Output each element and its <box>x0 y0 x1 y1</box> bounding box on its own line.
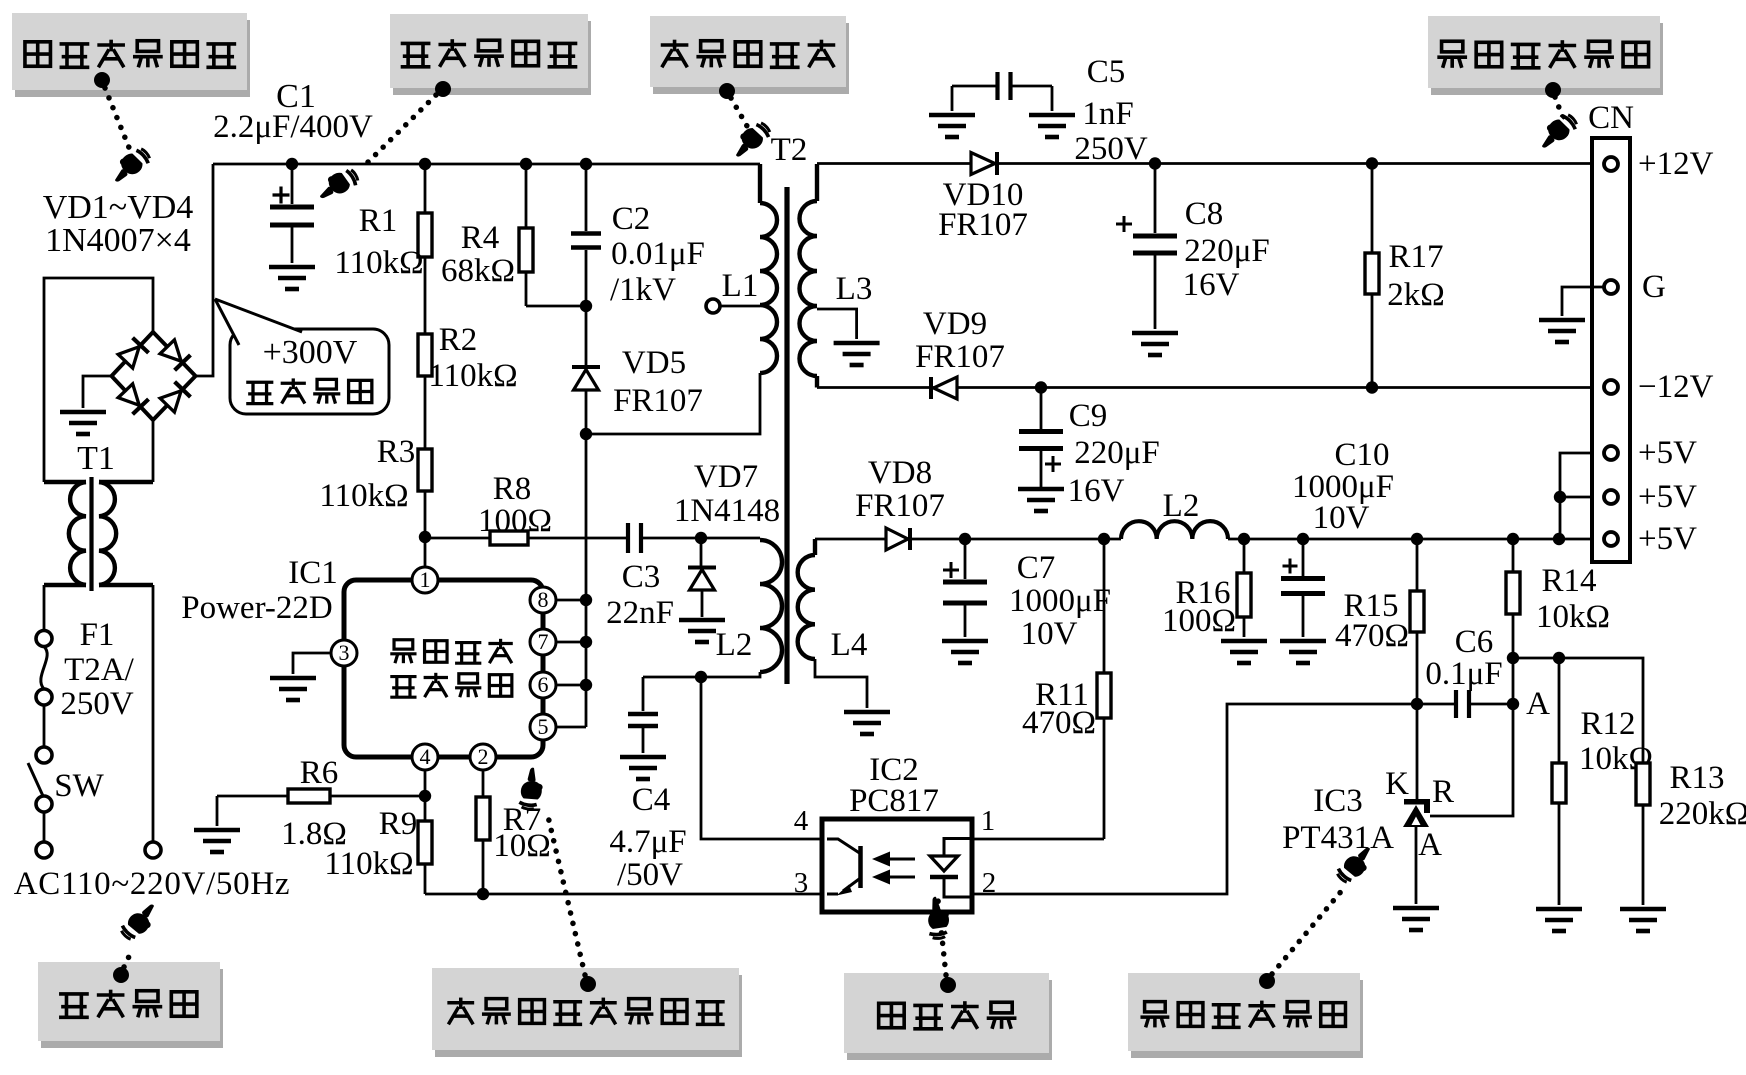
IC1 pin 4 <box>412 744 438 770</box>
wire: T1 right bottom to AC terminal <box>152 585 155 841</box>
svg-text:R: R <box>1432 774 1454 810</box>
resistor R6 1.8 <box>217 795 288 798</box>
svg-text:R6: R6 <box>300 755 339 791</box>
IC1 pin 6 <box>530 672 556 698</box>
node A <box>1507 698 1519 710</box>
svg-text:2kΩ: 2kΩ <box>1387 277 1445 313</box>
svg-text:AC110~220V/50Hz: AC110~220V/50Hz <box>14 866 290 902</box>
wire: G pin to ground <box>1562 287 1604 316</box>
label box: switching transformer (开关变压器) <box>653 23 849 94</box>
svg-text:10kΩ: 10kΩ <box>1536 599 1610 635</box>
node: R17 bottom <box>1366 381 1378 393</box>
node: R15/C6/IC3 <box>1411 698 1423 710</box>
svg-text:PC817: PC817 <box>849 783 939 819</box>
svg-text:16V: 16V <box>1183 267 1240 303</box>
wire: pin8 stub <box>556 599 586 602</box>
svg-text:R17: R17 <box>1388 239 1443 275</box>
svg-text:220μF: 220μF <box>1184 233 1270 269</box>
wire: +5V pins link <box>1560 453 1592 539</box>
wire: node A to IC3 R terminal <box>1430 704 1513 816</box>
node: C10 top <box>1297 533 1309 545</box>
svg-text:L1: L1 <box>722 268 759 304</box>
svg-text:6: 6 <box>538 672 549 697</box>
node: C8 top <box>1149 157 1161 169</box>
svg-text:5: 5 <box>538 714 549 739</box>
IC2 phototransistor <box>858 846 863 888</box>
svg-text:VD9: VD9 <box>923 306 987 342</box>
wire: -12V rail <box>817 386 1592 389</box>
node: pin7/vertical <box>580 636 592 648</box>
resistor R2 110k <box>418 334 432 376</box>
svg-text:PT431A: PT431A <box>1282 820 1394 856</box>
capacitor C2 0.01uF/1kV <box>585 164 588 231</box>
wire: +12V rail <box>817 162 1592 165</box>
diode VD5 FR107 <box>585 306 588 367</box>
label box: error detection circuit (误差检测电路) <box>1131 980 1363 1058</box>
node: pin8/vertical <box>580 594 592 606</box>
ground: C5 right <box>1029 115 1075 137</box>
pointer hand: DC voltage output <box>1534 110 1580 154</box>
label box: bridge rectifier circuit (桥式整流电路) <box>15 20 250 97</box>
capacitor C8 220uF/16V <box>1154 164 1157 234</box>
switch SW <box>36 747 52 763</box>
node: R11 top <box>1098 533 1110 545</box>
node: R1 top <box>419 158 431 170</box>
wire: R11 to IC2 pin1 <box>972 838 1104 841</box>
svg-text:−12V: −12V <box>1638 369 1714 405</box>
svg-text:110kΩ: 110kΩ <box>334 245 423 281</box>
wire: pin3 to ground <box>293 653 331 674</box>
L1 tap terminal <box>706 299 720 313</box>
diode VD8 FR107 <box>886 528 908 550</box>
diode VD7 1N4148 <box>700 538 703 567</box>
resistor R16 100 <box>1243 539 1246 573</box>
IC1 pin 5 <box>530 714 556 740</box>
svg-text:T2: T2 <box>771 132 808 168</box>
pointer hand: AC input <box>118 899 163 944</box>
ground: bridge negative <box>60 412 106 434</box>
svg-text:CN: CN <box>1588 100 1634 136</box>
T2 secondary winding L4 <box>813 539 817 555</box>
svg-text:R1: R1 <box>359 203 398 239</box>
svg-text:T1: T1 <box>77 440 115 477</box>
svg-text:1N4148: 1N4148 <box>674 493 780 529</box>
svg-text:1000μF: 1000μF <box>1009 583 1111 619</box>
svg-text:L4: L4 <box>831 627 868 663</box>
resistor R7 10 <box>476 797 490 840</box>
svg-text:68kΩ: 68kΩ <box>441 253 515 289</box>
pointer hand: switching transformer <box>728 118 774 162</box>
wire: pin4 down <box>424 770 427 796</box>
svg-text:4.7μF: 4.7μF <box>609 824 686 860</box>
wire: +5V rail left segment <box>815 538 886 541</box>
svg-text:R2: R2 <box>439 322 478 358</box>
svg-text:VD7: VD7 <box>694 459 758 495</box>
resistor R9 110k <box>424 796 427 821</box>
pointer hand: optocoupler <box>926 896 950 939</box>
svg-text:4: 4 <box>794 805 809 837</box>
node: VD7/L2 top <box>695 532 707 544</box>
CN pin +5V a <box>1604 446 1618 460</box>
bridge diode VD3 (left-bottom edge) <box>117 383 148 414</box>
svg-text:IC1: IC1 <box>288 555 338 591</box>
callout pointer leader: filter capacitor label <box>435 81 451 97</box>
IC3 PT431A shunt regulator <box>1416 704 1419 799</box>
svg-text:C2: C2 <box>612 201 651 237</box>
svg-text:1N4007×4: 1N4007×4 <box>45 222 191 259</box>
node: pin4/R6/R9 <box>419 790 431 802</box>
wire: C3 to VD7 node <box>641 537 701 540</box>
svg-text:A: A <box>1418 827 1442 863</box>
pointer hand: bridge rectifier <box>107 144 153 188</box>
capacitor C9 220uF/16V <box>1040 388 1043 430</box>
wire: bridge bottom vertex to T1 right winding <box>152 420 155 482</box>
wire: L2 inductor to CN +5V <box>1228 538 1592 541</box>
svg-text:L3: L3 <box>836 271 873 307</box>
T2 feedback winding L2 <box>760 540 782 672</box>
svg-text:R14: R14 <box>1541 563 1596 599</box>
wire: pin6 stub <box>556 684 586 687</box>
node: R16 top <box>1238 533 1250 545</box>
wire: bridge + output to rail <box>196 164 214 376</box>
node: R12 top <box>1553 652 1565 664</box>
T2 primary winding L1 <box>758 164 762 203</box>
svg-text:K: K <box>1385 766 1409 802</box>
svg-text:R13: R13 <box>1669 760 1724 796</box>
capacitor C1 2.2uF/400V <box>291 164 294 204</box>
ground: IC1 pin3 <box>270 678 316 700</box>
svg-text:FR107: FR107 <box>938 207 1028 243</box>
resistor R17 2k <box>1371 164 1374 254</box>
svg-text:+300V: +300V <box>263 334 358 371</box>
svg-text:A: A <box>1526 686 1550 722</box>
svg-text:G: G <box>1642 269 1666 305</box>
node: R15 top <box>1411 533 1423 545</box>
svg-text:Power-22D: Power-22D <box>181 590 332 626</box>
IC1 pin 2 <box>470 744 496 770</box>
wire: VD5 node down past R8 wire to IC1 pins <box>585 434 588 727</box>
node: +5V link <box>1553 533 1565 545</box>
wire: pin2 down <box>482 770 485 797</box>
label box: switching oscillator IC (开关振荡集成电路) <box>435 975 742 1057</box>
svg-text:FR107: FR107 <box>915 339 1005 375</box>
node: R14 top <box>1507 533 1519 545</box>
svg-text:7: 7 <box>538 629 549 654</box>
CN pin G <box>1604 280 1618 294</box>
wire: C4 node to IC2 pin4 <box>701 677 822 839</box>
node: pin6/vertical <box>580 679 592 691</box>
wire: pin5 stub <box>556 726 586 729</box>
wire: switch to AC terminal <box>43 812 46 841</box>
node: R4 top <box>520 158 532 170</box>
svg-text:C3: C3 <box>622 559 661 595</box>
svg-text:16V: 16V <box>1068 473 1125 509</box>
svg-text:2: 2 <box>478 744 489 769</box>
svg-text:10Ω: 10Ω <box>493 828 551 864</box>
wire: fuse to switch <box>43 705 46 747</box>
CN pin +12V <box>1604 157 1618 171</box>
svg-text:FR107: FR107 <box>855 488 945 524</box>
svg-text:VD8: VD8 <box>868 455 932 491</box>
resistor R4 68k <box>525 164 528 228</box>
svg-text:/50V: /50V <box>617 857 683 893</box>
ground: VD7 anode <box>679 620 725 642</box>
svg-text:+5V: +5V <box>1638 479 1697 515</box>
svg-text:220μF: 220μF <box>1074 435 1160 471</box>
wire: IC2 pin2 to error network <box>972 704 1417 894</box>
bridge rectifier VD1-VD4 diamond <box>112 332 196 420</box>
diode VD10 FR107 <box>971 153 995 175</box>
svg-text:+5V: +5V <box>1638 435 1697 471</box>
svg-text:C10: C10 <box>1334 437 1389 473</box>
svg-text:C8: C8 <box>1185 196 1224 232</box>
CN pin +5V c <box>1604 532 1618 546</box>
svg-text:/1kV: /1kV <box>610 272 676 308</box>
svg-text:470Ω: 470Ω <box>1335 618 1409 654</box>
capacitor C4 4.7uF/50V <box>642 677 645 711</box>
svg-text:1nF: 1nF <box>1082 96 1133 132</box>
node: C2 top <box>580 158 592 170</box>
resistor R14 10k <box>1512 539 1515 572</box>
resistor R12 10k <box>1558 658 1561 763</box>
node: R7 bottom <box>477 888 489 900</box>
ground: C5 left <box>929 115 975 137</box>
capacitor C6 0.1uF <box>1417 703 1454 706</box>
svg-text:10V: 10V <box>1021 616 1078 652</box>
svg-text:IC3: IC3 <box>1313 783 1363 819</box>
wire: pin7 stub <box>556 641 586 644</box>
svg-text:250V: 250V <box>1074 131 1148 167</box>
capacitor C5 1nF/250V snubber <box>952 85 996 88</box>
svg-text:1: 1 <box>420 567 431 592</box>
capacitor C3 22nF <box>626 523 630 553</box>
capacitor C7 1000uF/10V <box>964 539 967 579</box>
callout pointer leader: error detection label <box>1259 973 1275 989</box>
IC1 switching oscillator IC outline <box>344 580 543 757</box>
pointer hand: filter capacitor <box>314 165 361 205</box>
svg-text:0.01μF: 0.01μF <box>611 236 705 272</box>
svg-text:100Ω: 100Ω <box>478 503 552 539</box>
svg-text:C5: C5 <box>1087 54 1126 90</box>
CN pin -12V <box>1604 380 1618 394</box>
svg-text:C4: C4 <box>632 782 671 818</box>
svg-text:470Ω: 470Ω <box>1022 705 1096 741</box>
svg-text:C6: C6 <box>1455 624 1494 660</box>
IC2 LED <box>944 839 972 857</box>
resistor R13 220k <box>1636 763 1650 805</box>
svg-text:R12: R12 <box>1580 706 1635 742</box>
wire: R4 bottom to C2/VD5 node <box>526 305 586 308</box>
svg-text:4: 4 <box>420 744 431 769</box>
svg-text:R8: R8 <box>493 471 532 507</box>
callout: +300V DC voltage <box>230 329 389 414</box>
svg-text:VD5: VD5 <box>622 345 686 381</box>
IC1 pin 7 <box>530 629 556 655</box>
label box: optocoupler (光耦合器) <box>847 980 1052 1060</box>
resistor R8 100 <box>425 537 490 540</box>
IC1 pin 8 <box>530 587 556 613</box>
ground: L4 bottom <box>844 712 890 734</box>
node: C1 on top rail <box>286 158 298 170</box>
callout pointer leader: AC input label <box>113 967 129 983</box>
label box: AC input (交流输入) <box>41 969 223 1048</box>
svg-text:22nF: 22nF <box>606 595 674 631</box>
wire: T1 left bottom to fuse <box>43 585 46 630</box>
IC1 internal label (开关振荡/集成电路) <box>390 640 416 663</box>
IC1 pin 1 <box>412 567 438 593</box>
L3 tap to ground <box>817 309 857 339</box>
AC input terminal right <box>145 842 161 858</box>
svg-text:R4: R4 <box>461 220 500 256</box>
svg-text:110kΩ: 110kΩ <box>319 478 408 514</box>
svg-text:220kΩ: 220kΩ <box>1659 796 1746 832</box>
IC2 light arrows <box>884 858 915 861</box>
inductor L2 filter <box>1121 521 1228 539</box>
node: C2/VD5 <box>580 300 592 312</box>
resistor R1 110k <box>424 164 427 213</box>
svg-text:FR107: FR107 <box>613 383 703 419</box>
wire: IC1 pin1 to R3 node <box>424 537 427 568</box>
callout pointer leader: optocoupler label <box>940 977 956 993</box>
wire: L1 bottom to VD5 node <box>586 373 760 434</box>
svg-text:F1: F1 <box>80 617 115 653</box>
pointer hand: oscillator IC <box>517 766 546 811</box>
svg-text:R9: R9 <box>379 806 418 842</box>
resistor R3 110k <box>418 449 432 491</box>
pointer hand: error detection (IC3) <box>1334 842 1379 887</box>
svg-text:C7: C7 <box>1017 550 1056 586</box>
node: C9 top <box>1035 381 1047 393</box>
wire: bridge - (left vertex) to ground <box>83 376 112 408</box>
bridge diode VD2 (top-right edge) <box>159 339 190 370</box>
svg-text:T2A/: T2A/ <box>64 652 134 688</box>
callout pointer leader: switching transformer label <box>719 83 735 99</box>
node: +5V link mid <box>1554 491 1566 503</box>
svg-text:8: 8 <box>538 587 549 612</box>
bridge diode VD1 (left-top edge) <box>117 338 148 369</box>
node: VD5/L1 return <box>580 428 592 440</box>
T2 secondary winding L3 <box>815 164 819 201</box>
svg-text:VD1~VD4: VD1~VD4 <box>43 189 194 226</box>
svg-text:C9: C9 <box>1069 398 1108 434</box>
svg-text:110kΩ: 110kΩ <box>324 846 413 882</box>
label box: DC voltage output (直流电压输出) <box>1431 23 1663 95</box>
connector CN outline <box>1592 138 1630 562</box>
wire: bottom rail to IC2 pin3 <box>425 893 822 896</box>
wire+ground: R6 left <box>216 796 219 826</box>
node: R3/R8/IC1 pin1 <box>419 531 431 543</box>
transformer T2 core <box>784 187 789 684</box>
svg-text:+5V: +5V <box>1638 521 1697 557</box>
callout pointer leader: bridge label <box>94 72 110 88</box>
svg-text:SW: SW <box>54 768 104 804</box>
wire: VD8 to L2 inductor <box>912 538 1121 541</box>
svg-text:250V: 250V <box>60 686 134 722</box>
resistor R11 470 <box>1103 539 1106 673</box>
bridge diode VD4 (bottom-right edge) <box>159 382 190 413</box>
svg-text:L2: L2 <box>716 627 753 663</box>
svg-text:1: 1 <box>981 805 996 837</box>
svg-text:3: 3 <box>794 867 809 899</box>
resistor R15 470 <box>1416 539 1419 591</box>
svg-text:2: 2 <box>982 867 997 899</box>
wire: L2 top to VD7 node <box>701 537 760 540</box>
capacitor C10 1000uF/10V <box>1302 539 1305 576</box>
wire: branch to R12/R13 <box>1513 658 1643 763</box>
callout pointer leader: oscillator IC label <box>580 976 596 992</box>
svg-text:3: 3 <box>339 640 350 665</box>
fuse F1 T2A/250V <box>36 631 52 647</box>
node: R14/R12-R13 branch <box>1507 652 1519 664</box>
svg-text:+12V: +12V <box>1638 146 1714 182</box>
CN pin +5V b <box>1604 490 1618 504</box>
wire: top +300V rail <box>213 163 760 166</box>
diode VD9 FR107 <box>929 377 933 399</box>
IC1 pin 3 <box>331 640 357 666</box>
wire: R8 to C3 <box>528 537 628 540</box>
svg-text:R3: R3 <box>377 434 416 470</box>
node: L2 bottom / C4 / pin4 wire <box>695 671 707 683</box>
node: C7 top <box>959 533 971 545</box>
AC input terminal left <box>36 842 52 858</box>
callout pointer leader: DC output label <box>1545 82 1561 98</box>
node: R17 top <box>1366 157 1378 169</box>
wire: bridge top vertex to T1 left side <box>44 278 153 482</box>
svg-text:0.1μF: 0.1μF <box>1425 656 1502 692</box>
svg-text:10V: 10V <box>1313 500 1370 536</box>
svg-text:L2: L2 <box>1163 488 1200 524</box>
svg-text:2.2μF/400V: 2.2μF/400V <box>213 109 373 145</box>
label box: filter capacitor (滤波电容器) <box>393 21 591 95</box>
svg-text:100Ω: 100Ω <box>1162 603 1236 639</box>
ground: C1 <box>269 267 315 289</box>
IC2 PC817 optocoupler box <box>822 819 972 912</box>
svg-text:110kΩ: 110kΩ <box>428 358 517 394</box>
